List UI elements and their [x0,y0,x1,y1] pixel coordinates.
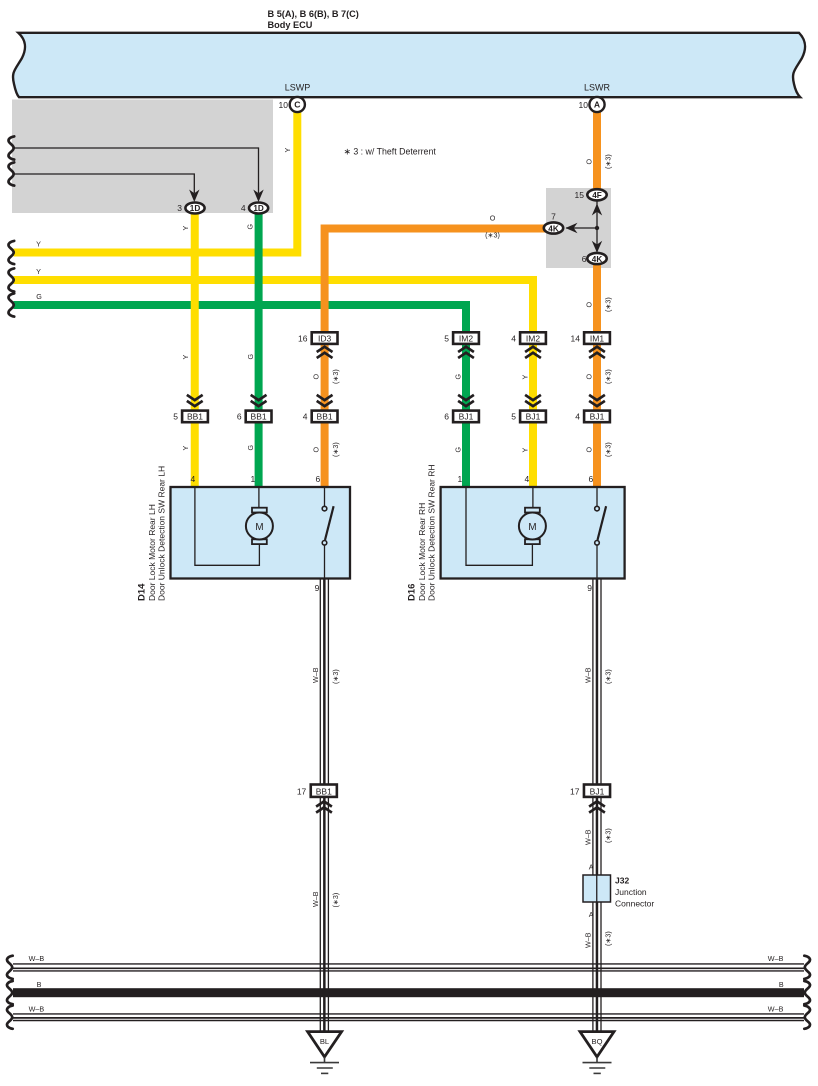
svg-text:(∗3): (∗3) [604,442,613,457]
svg-text:∗ 3 : w/ Theft Deterrent: ∗ 3 : w/ Theft Deterrent [344,147,437,157]
svg-text:ID3: ID3 [318,334,332,344]
svg-text:G: G [246,354,255,360]
svg-text:J32: J32 [615,876,629,886]
svg-text:1: 1 [458,474,463,484]
svg-text:6: 6 [444,412,449,422]
svg-text:G: G [246,445,255,451]
svg-text:10: 10 [279,100,289,110]
svg-text:6: 6 [582,254,587,264]
svg-text:1D: 1D [190,204,201,213]
svg-text:4K: 4K [548,224,559,233]
svg-text:Body ECU: Body ECU [268,20,313,30]
svg-text:Y: Y [283,148,292,153]
svg-text:Door Lock Motor Rear LH: Door Lock Motor Rear LH [147,504,157,601]
svg-text:LSWR: LSWR [584,83,611,93]
svg-text:4: 4 [303,412,308,422]
svg-text:BL: BL [320,1037,329,1046]
svg-text:9: 9 [315,583,320,593]
svg-text:BB1: BB1 [187,412,203,422]
svg-text:5: 5 [511,412,516,422]
svg-text:BB1: BB1 [251,412,267,422]
svg-text:(∗3): (∗3) [331,669,340,684]
svg-text:IM1: IM1 [590,334,604,344]
svg-text:Y: Y [36,239,41,248]
svg-text:7: 7 [551,211,556,221]
svg-text:BQ: BQ [592,1037,603,1046]
svg-text:W–B: W–B [311,891,320,907]
svg-text:O: O [312,447,321,453]
svg-text:(∗3): (∗3) [604,154,613,169]
svg-text:G: G [246,224,255,230]
svg-text:W–B: W–B [584,829,593,845]
svg-text:(∗3): (∗3) [331,442,340,457]
svg-text:Y: Y [521,448,530,453]
svg-text:M: M [255,522,263,533]
svg-text:4: 4 [191,474,196,484]
svg-text:W–B: W–B [29,954,45,963]
svg-text:(∗3): (∗3) [331,893,340,908]
svg-text:(∗3): (∗3) [604,369,613,384]
svg-text:3: 3 [177,203,182,213]
svg-text:BJ1: BJ1 [590,787,605,797]
svg-text:IM2: IM2 [526,334,540,344]
svg-text:(∗3): (∗3) [331,369,340,384]
svg-text:IM2: IM2 [459,334,473,344]
svg-text:(∗3): (∗3) [604,828,613,843]
svg-text:(∗3): (∗3) [604,669,613,684]
svg-text:(∗3): (∗3) [485,231,500,240]
svg-text:(∗3): (∗3) [604,931,613,946]
svg-text:4F: 4F [592,191,602,200]
svg-text:O: O [490,214,496,223]
svg-text:G: G [454,374,463,380]
svg-text:4: 4 [575,412,580,422]
svg-text:1D: 1D [253,204,264,213]
svg-text:B 5(A), B 6(B), B 7(C): B 5(A), B 6(B), B 7(C) [268,9,359,19]
svg-text:W–B: W–B [768,1004,784,1013]
svg-text:W–B: W–B [29,1004,45,1013]
svg-text:W–B: W–B [584,667,593,683]
svg-text:BB1: BB1 [317,412,333,422]
svg-text:6: 6 [316,474,321,484]
svg-text:4: 4 [525,474,530,484]
svg-text:17: 17 [570,787,580,797]
svg-text:Y: Y [181,355,190,360]
svg-text:Door Lock Motor Rear RH: Door Lock Motor Rear RH [417,503,427,601]
svg-text:17: 17 [297,787,307,797]
svg-text:W–B: W–B [768,954,784,963]
svg-text:16: 16 [298,334,308,344]
svg-text:O: O [312,374,321,380]
svg-text:Y: Y [521,375,530,380]
svg-text:O: O [585,302,594,308]
svg-text:B: B [37,980,42,989]
svg-text:4: 4 [241,203,246,213]
svg-text:4: 4 [511,334,516,344]
svg-text:BB1: BB1 [316,787,332,797]
svg-text:BJ1: BJ1 [590,412,605,422]
svg-text:14: 14 [571,334,581,344]
svg-text:6: 6 [589,474,594,484]
svg-text:W–B: W–B [311,667,320,683]
svg-text:A: A [589,863,594,872]
svg-text:Y: Y [181,446,190,451]
svg-text:O: O [585,374,594,380]
svg-text:LSWP: LSWP [285,83,311,93]
svg-text:BJ1: BJ1 [459,412,474,422]
svg-text:Door Unlock Detection SW Rear: Door Unlock Detection SW Rear LH [156,466,166,601]
svg-text:O: O [585,159,594,165]
svg-text:Y: Y [181,226,190,231]
svg-text:Y: Y [36,267,41,276]
svg-text:O: O [585,447,594,453]
svg-text:M: M [528,522,536,533]
svg-text:5: 5 [444,334,449,344]
svg-text:W–B: W–B [584,932,593,948]
svg-text:A: A [589,910,594,919]
svg-text:15: 15 [575,190,585,200]
svg-text:BJ1: BJ1 [526,412,541,422]
svg-text:5: 5 [173,412,178,422]
svg-text:10: 10 [579,100,589,110]
svg-text:C: C [294,100,300,110]
svg-text:Junction: Junction [615,887,647,897]
svg-text:Door Unlock Detection SW Rear: Door Unlock Detection SW Rear RH [427,464,437,601]
svg-text:B: B [779,980,784,989]
svg-text:A: A [594,100,600,110]
svg-text:6: 6 [237,412,242,422]
svg-text:9: 9 [587,583,592,593]
svg-text:4K: 4K [592,255,603,264]
svg-text:Connector: Connector [615,899,654,909]
svg-text:G: G [36,292,42,301]
svg-text:G: G [454,447,463,453]
svg-text:1: 1 [251,474,256,484]
svg-text:(∗3): (∗3) [604,297,613,312]
